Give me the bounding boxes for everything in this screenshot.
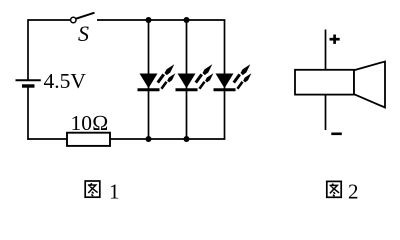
LED D2 [176,20,214,139]
svg-text:2: 2 [348,180,359,204]
switch S [71,13,95,23]
battery B1 4.5V [16,80,41,86]
terminal label − [331,133,342,136]
wire: top-left horizontal from battery corner to switch [28,19,71,21]
loudspeaker LS1 (figure 2) [295,30,385,131]
junction: bottom node of D1 branch [146,136,152,142]
svg-text:1: 1 [109,179,120,203]
caption 图 2 (figure 2) [327,180,359,204]
wire: bottom horizontal from resistor to right corner [110,138,225,140]
caption 图 1 (figure 1) [85,179,119,203]
junction: top node of D1 branch [146,17,152,23]
wire: bottom horizontal to resistor [27,138,67,140]
svg-text:4.5V: 4.5V [44,69,87,93]
LED D1 [138,20,176,139]
svg-text:10Ω: 10Ω [71,111,109,135]
svg-text:S: S [78,21,89,46]
wire: left vertical upper (battery + lead) [27,19,29,80]
wire: top horizontal from switch to right corner [97,19,225,21]
LED D3 [214,20,252,139]
resistor R1 [67,133,110,146]
wire: left vertical lower (battery - lead) [27,86,29,140]
junction: top node of D2 branch [184,17,190,23]
junction: bottom node of D2 branch [184,136,190,142]
terminal label + [330,35,340,44]
